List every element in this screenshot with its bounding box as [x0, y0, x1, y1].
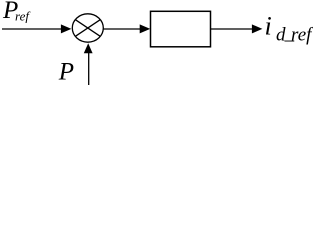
svg-text:ref: ref: [15, 8, 31, 23]
arrowhead into block: [140, 24, 151, 33]
wire block to output: [211, 28, 253, 30]
svg-text:ref: ref: [291, 24, 313, 45]
label i_d_ref: [265, 11, 315, 45]
output arrowhead: [252, 24, 263, 33]
svg-text:i: i: [265, 11, 272, 40]
svg-text:P: P: [58, 59, 74, 86]
wire input P (vertical): [88, 53, 90, 86]
arrowhead into summing junction (left): [61, 24, 72, 33]
block (empty transfer-function rectangle): [151, 11, 211, 47]
wire input Pref to summing junction: [2, 28, 62, 30]
wire summing junction to block: [103, 28, 141, 30]
label P_ref: [2, 0, 31, 24]
arrowhead up into summing junction (bottom): [84, 43, 93, 53]
summing junction (multiplier circle with X): [72, 14, 103, 42]
